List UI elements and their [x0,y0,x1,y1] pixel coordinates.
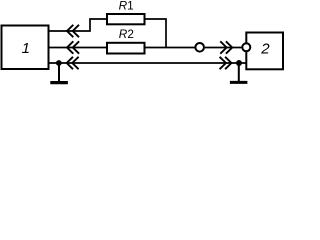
arrows: double chevron on middle wire pointing left [67,41,79,53]
wire: middle line from R2 to connector circle [146,47,195,49]
connector circle on middle line [195,43,204,52]
junction dot right [236,60,242,66]
junction dot left [56,60,62,66]
device box 2 [246,33,283,70]
arrows: double chevron on bottom wire pointing left [67,57,79,69]
arrows: double chevron on middle wire pointing right [220,41,232,53]
wire: bottom line from box 1 to box 2 [50,62,246,64]
resistor R1 [107,0,145,24]
arrows: double chevron on bottom wire pointing right [220,57,232,69]
svg-text:R2: R2 [119,27,134,41]
arrows: double chevron on top wire pointing left [67,25,79,37]
wire: middle line from connector circle to box 2 [205,47,242,49]
resistor R2 [107,27,145,53]
device box 1 [2,26,49,70]
ground symbol left [50,63,68,83]
wire: top line from box 1 to R1 [50,19,107,31]
connector circle on box 2 input [242,43,250,51]
svg-text:2: 2 [260,40,270,57]
ground symbol right [230,63,248,82]
wire: R1 right terminal down to middle line [146,19,167,48]
svg-text:R1: R1 [119,0,134,12]
wire: middle line from box 1 to R2 [50,47,107,49]
svg-text:1: 1 [22,40,30,57]
